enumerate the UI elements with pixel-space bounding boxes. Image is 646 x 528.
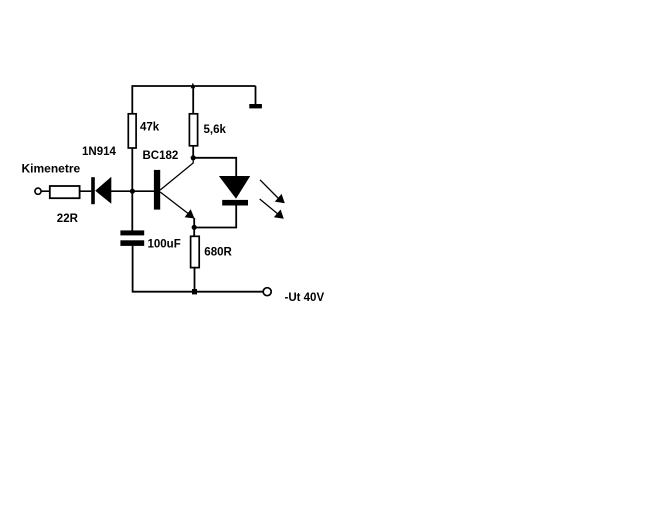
wire top horizontal rail <box>132 85 256 87</box>
node bottom rail junction <box>192 289 197 294</box>
wire from rail down to 5,6k <box>192 86 194 115</box>
node top rail junction <box>191 83 196 89</box>
wire collector diagonal <box>160 158 193 190</box>
diode 1N914 cathode bar <box>91 177 95 204</box>
capacitor 100uF bottom plate <box>120 240 144 246</box>
svg-text:100uF: 100uF <box>148 238 181 250</box>
svg-text:1N914: 1N914 <box>82 146 116 158</box>
wire emitter arrowhead <box>185 209 195 218</box>
node base junction <box>130 189 135 194</box>
svg-text:680R: 680R <box>204 247 232 259</box>
resistor 22R <box>50 186 80 198</box>
svg-text:BC182: BC182 <box>143 150 179 162</box>
resistor 47k <box>128 114 136 148</box>
svg-text:-Ut 40V: -Ut 40V <box>285 292 325 304</box>
svg-text:5,6k: 5,6k <box>204 124 227 136</box>
svg-text:Kimenetre: Kimenetre <box>22 161 81 175</box>
diode 1N914 triangle <box>95 177 111 204</box>
light arrow 1 <box>260 180 285 203</box>
wire left vertical from 47k to capacitor <box>131 148 133 231</box>
wire emitter node to 680R <box>193 228 195 237</box>
capacitor 100uF top plate <box>120 230 144 235</box>
ground <box>249 104 262 108</box>
wire emitter stub to node <box>193 218 195 228</box>
wire collector node to LED top <box>193 158 236 176</box>
svg-text:47k: 47k <box>140 122 160 134</box>
resistor 680R <box>191 236 200 267</box>
LED triangle <box>219 176 250 199</box>
transistor Q1 BC182 bar <box>154 170 160 210</box>
LED cathode bar <box>222 200 248 206</box>
light arrow 2 <box>260 199 284 219</box>
wire left vertical from rail to 47k <box>131 86 133 115</box>
wire input circle to 22R <box>41 190 50 192</box>
wire emitter diagonal <box>160 192 192 217</box>
wire from 5,6k down to collector node <box>192 146 194 158</box>
terminal input circle <box>35 188 41 194</box>
wire ground stub vertical <box>255 86 257 105</box>
terminal output circle <box>263 288 271 296</box>
svg-text:22R: 22R <box>57 213 79 225</box>
node collector junction <box>191 155 196 160</box>
wire 22R to diode <box>80 190 92 192</box>
resistor 5,6k <box>189 114 197 146</box>
wire capacitor to bottom rail <box>133 246 263 292</box>
wire diode to base junction <box>111 190 132 192</box>
wire base junction to transistor <box>132 190 154 192</box>
node emitter junction <box>192 225 197 230</box>
wire LED bottom to emitter node <box>194 206 236 228</box>
wire 680R to bottom rail <box>194 268 196 292</box>
